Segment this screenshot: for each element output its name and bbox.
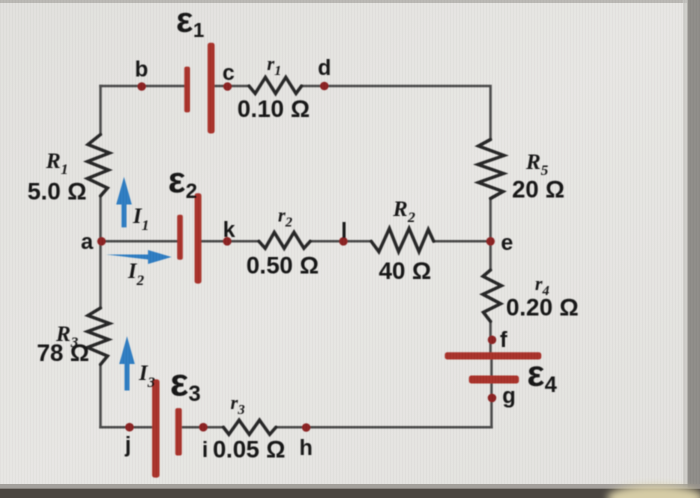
battery E4 short plate	[469, 376, 519, 384]
node i	[199, 423, 208, 432]
node b	[137, 82, 146, 91]
wire top b segment	[101, 85, 185, 88]
resistor R2 zigzag 40 ohm	[371, 229, 434, 252]
resistor r4 zigzag 0.20 ohm	[483, 270, 502, 322]
battery E2 short plate	[177, 215, 183, 260]
wire bottom h segment	[276, 426, 492, 429]
current arrow I3	[119, 336, 135, 390]
wire right R5 to r4	[489, 199, 492, 271]
wire bottom j segment	[101, 426, 153, 429]
battery E1 short plate	[184, 67, 190, 113]
node h	[302, 423, 311, 432]
wire middle E2 to r2	[202, 240, 259, 243]
node e	[486, 237, 495, 246]
node k	[223, 237, 232, 246]
battery E1 long plate	[208, 43, 215, 134]
node l	[339, 237, 348, 246]
current arrow I2	[106, 250, 172, 264]
resistor R5 zigzag 20 ohm	[478, 140, 504, 199]
node c	[223, 82, 232, 91]
node j	[125, 423, 134, 432]
node f	[488, 336, 497, 345]
resistor R3 zigzag 78 ohm	[88, 308, 110, 365]
wire bottom i segment	[183, 426, 223, 429]
battery E3 short plate	[175, 408, 182, 455]
resistor r2 zigzag 0.50 ohm	[259, 232, 310, 248]
resistor r3 zigzag 0.05 ohm	[223, 420, 276, 434]
node d	[320, 82, 329, 91]
wire right E4 gap	[490, 360, 493, 376]
battery E2 long plate	[195, 193, 202, 283]
wire left a segment	[99, 196, 102, 308]
node g	[488, 394, 497, 403]
resistor r1 zigzag 0.10 ohm	[249, 77, 302, 93]
current arrow I1	[116, 177, 132, 228]
wire middle a to E2	[101, 240, 178, 243]
wire left lower	[99, 365, 102, 428]
wire left upper	[99, 86, 102, 135]
node a	[97, 237, 106, 246]
wire right E4 to bottom corner	[490, 384, 493, 428]
battery E3 long plate	[152, 379, 159, 477]
wire top c segment	[215, 85, 249, 88]
battery E4 long plate	[445, 352, 542, 359]
wire right r4 to E4	[489, 322, 492, 353]
resistor R1 zigzag 5.0 ohm	[88, 135, 110, 197]
wire middle r2 to R2	[310, 240, 371, 243]
wire top d segment and right drop to R5	[302, 86, 491, 140]
wire middle R2 to e	[434, 240, 491, 243]
